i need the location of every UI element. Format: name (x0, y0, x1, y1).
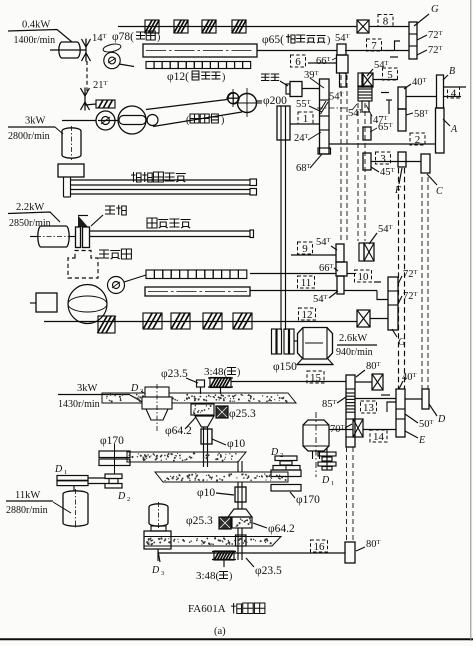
numbox 13 (361, 401, 377, 413)
phi23 shaft upper (197, 380, 205, 387)
svg-text:13: 13 (363, 402, 375, 414)
svg-text:D: D (270, 447, 279, 458)
svg-text:11: 11 (301, 277, 312, 289)
cone upper (195, 416, 214, 427)
worm hatch lower (214, 551, 234, 560)
gearbox phi64 upper (191, 404, 214, 415)
waste box jizaxiang dashed (68, 251, 98, 279)
pulley circle left (104, 52, 120, 68)
gear pulley circle mid (108, 277, 125, 294)
svg-text:φ170: φ170 (100, 435, 124, 447)
motor M5 small (303, 420, 329, 451)
svg-text:2850r/min: 2850r/min (9, 218, 51, 229)
svg-text:1: 1 (331, 480, 334, 487)
svg-text:φ64.2: φ64.2 (268, 523, 295, 535)
gear 58T (398, 109, 406, 131)
shaft lower tail (237, 528, 239, 560)
svg-text:3:48(: 3:48( (196, 570, 220, 582)
gear column B A (437, 75, 444, 108)
svg-text:3:48(: 3:48( (204, 366, 228, 378)
gear C (421, 154, 430, 173)
svg-text:φ78(: φ78( (112, 31, 134, 43)
shaft line F (371, 161, 421, 163)
numbox 7 (367, 39, 382, 51)
gear column G2 72T (388, 277, 398, 330)
svg-text:8: 8 (383, 16, 389, 28)
gear 80T bottom (345, 542, 355, 563)
D3 stem (157, 549, 159, 561)
pulley D2 r2 (275, 456, 297, 461)
wire link (119, 64, 134, 67)
numbox 14 (370, 430, 387, 442)
svg-text:): ) (327, 35, 330, 46)
svg-text:C: C (436, 186, 443, 197)
bevel gear pair 14T (85, 39, 87, 62)
coupling X top (357, 20, 369, 33)
svg-text:3: 3 (161, 570, 164, 577)
svg-text:1400r/min: 1400r/min (14, 35, 56, 46)
fork 13 (387, 402, 396, 412)
gear stack hatch (358, 86, 372, 101)
shaft sleeve phi200 (277, 106, 290, 140)
motor M1 0.4kW (59, 42, 80, 58)
svg-text:B: B (449, 66, 455, 77)
gear column 40-50 E (396, 389, 405, 437)
pulley D1 left (57, 476, 88, 481)
svg-text:φ10: φ10 (197, 487, 215, 499)
svg-text:2800r/min: 2800r/min (8, 131, 50, 142)
motor M7 11kW (63, 491, 88, 526)
grooved drum rollers phi78 (145, 20, 159, 33)
hatched pulley under fan (98, 316, 115, 333)
oil pump label (261, 74, 270, 81)
drum phi200 circle (238, 94, 257, 113)
chain dashed pair right (357, 103, 359, 241)
svg-text:φ170: φ170 (296, 494, 320, 506)
label fuzhu xizuiguan (131, 172, 141, 182)
gear column G1 72T (409, 22, 417, 59)
shaft A line (329, 143, 436, 145)
coupling X 12 (357, 310, 370, 327)
coupling X 70 (353, 419, 363, 437)
svg-text:): ) (221, 115, 224, 126)
numbox 16 (311, 540, 328, 552)
svg-text:0.4kW: 0.4kW (22, 20, 50, 31)
belt conveyor (146, 100, 227, 110)
chain dashed pair left (340, 75, 342, 243)
minus mark (386, 56, 394, 58)
svg-text:D: D (117, 491, 126, 502)
long vertical shaft phi150 (280, 106, 282, 330)
numbox 4 (448, 87, 460, 98)
svg-text:φ25.3: φ25.3 (186, 515, 213, 527)
coupling X 54T r (359, 243, 364, 261)
gear 54T small (337, 44, 346, 55)
svg-text:A: A (450, 124, 458, 135)
svg-text:G: G (431, 4, 439, 15)
bracket stem (63, 177, 65, 197)
svg-text:2880r/min: 2880r/min (6, 505, 48, 516)
coupling X 80 (372, 374, 383, 390)
fan housing circle (68, 285, 107, 324)
svg-text:φ150: φ150 (273, 361, 297, 373)
svg-text:(a): (a) (214, 626, 226, 637)
motor M6 bell (145, 387, 169, 397)
svg-text:φ10: φ10 (227, 438, 245, 450)
svg-text:D: D (321, 475, 330, 486)
svg-text:4: 4 (451, 88, 457, 100)
svg-text:φ25.3: φ25.3 (229, 408, 256, 420)
waste duct paizafengguan (90, 230, 251, 232)
band4 belt (144, 537, 281, 547)
pulley large (118, 106, 146, 134)
svg-text:10: 10 (358, 271, 370, 283)
svg-text:): ) (222, 72, 225, 83)
numbox 6 (291, 55, 306, 67)
wire (369, 26, 409, 28)
svg-text:D: D (437, 414, 446, 425)
clutch hatched box (96, 100, 115, 108)
wire sleeve to column (290, 123, 320, 125)
minus mark 10 (374, 281, 381, 283)
squares row mid (146, 270, 154, 279)
minus 13 (381, 394, 390, 396)
svg-text:D: D (151, 565, 160, 576)
svg-text:φ64.2: φ64.2 (165, 425, 192, 437)
gear small above dashes (362, 101, 369, 112)
idler right (228, 93, 239, 104)
numbox 10 (355, 270, 372, 282)
numbox 5 (383, 68, 398, 80)
svg-text:FA601A: FA601A (188, 603, 226, 615)
svg-text:1: 1 (64, 469, 67, 476)
cone lower (228, 509, 252, 517)
svg-text:14: 14 (373, 431, 385, 443)
svg-text:φ200: φ200 (263, 95, 287, 107)
shaft line 15 (231, 381, 346, 383)
shaft stub lower (237, 461, 239, 472)
svg-text:6: 6 (295, 56, 301, 68)
motor M2 3kW (62, 128, 81, 158)
gear 54T r3 (337, 276, 344, 294)
pulley D1 right (326, 448, 328, 470)
wire xbox to 40T (373, 79, 398, 81)
svg-text:E: E (418, 435, 425, 446)
svg-text:3kW: 3kW (77, 383, 98, 394)
pulley circle phi200 small (228, 93, 239, 104)
pulley phi170 right (271, 470, 301, 477)
long shaft line mid (44, 321, 357, 323)
vertical bar 47 (370, 114, 372, 124)
svg-text:): ) (237, 367, 240, 378)
svg-text:): ) (229, 571, 232, 582)
shaft line groove drum (118, 26, 357, 28)
shaft box lower (235, 487, 246, 502)
svg-text:15: 15 (310, 372, 322, 384)
gear D rect (422, 389, 429, 409)
fan disc (76, 227, 81, 248)
motor M4 2.6kW (298, 328, 333, 360)
roller phi65 body (143, 44, 257, 57)
bracket box (58, 164, 84, 177)
worm hatch upper (210, 378, 231, 388)
svg-text:2: 2 (127, 496, 130, 503)
numbox 15 (307, 371, 324, 383)
clutch fork (395, 41, 401, 51)
svg-text:2: 2 (280, 452, 283, 459)
motor M8 small (149, 504, 168, 526)
shaft line 9 (291, 254, 336, 256)
disc ellipse (102, 43, 121, 54)
gear column main 39-55-24 (320, 79, 330, 154)
svg-text:1430r/min: 1430r/min (58, 399, 100, 410)
svg-text:φ23.5: φ23.5 (161, 368, 188, 380)
yarn guide bar squares (146, 62, 154, 69)
idler small (147, 115, 158, 126)
numbox 1 (298, 112, 313, 124)
gear 45T (363, 153, 371, 170)
svg-text:16: 16 (314, 541, 326, 553)
suction pipe outer (71, 179, 250, 181)
label fengji fan (105, 206, 115, 214)
numbox 2 (410, 133, 425, 145)
numbox 12 (299, 308, 316, 320)
page frame bottom edge (0, 638, 473, 640)
chain dashed pair CD (421, 177, 423, 389)
shaft line 13 (355, 398, 396, 400)
fan housing box (36, 293, 57, 312)
svg-text:12: 12 (302, 309, 313, 321)
coupling X 54T right (358, 73, 363, 87)
svg-text:7: 7 (371, 40, 377, 52)
oil pump body (286, 84, 290, 94)
pulley phi170 left (99, 451, 130, 458)
shaft box band4 (236, 535, 247, 546)
svg-text:1: 1 (303, 113, 309, 125)
shaft line yarn roller (257, 50, 337, 52)
gear F (398, 152, 406, 167)
motor M3 2.2kW (38, 226, 69, 247)
svg-text:φ23.5: φ23.5 (255, 565, 282, 577)
bevel gear pair 21T (84, 88, 86, 111)
svg-text:D: D (54, 464, 63, 475)
axis dashdot col1 (317, 107, 346, 109)
band1 belt (102, 393, 296, 403)
svg-text:11kW: 11kW (15, 490, 40, 501)
shaft line 11 (250, 290, 337, 292)
suction pipe inner (71, 189, 250, 191)
gear 54T r1 (336, 244, 344, 262)
svg-text:2.2kW: 2.2kW (16, 202, 44, 213)
long roller mid (145, 287, 250, 296)
shaft vertical lower (237, 482, 239, 509)
belt D1-D2 link (88, 477, 105, 479)
gear 65T (363, 127, 371, 140)
svg-text:2: 2 (415, 134, 421, 146)
gear 40T top (398, 87, 406, 109)
shaft line 10 (250, 273, 336, 275)
chain dashed pair bottom (346, 447, 348, 542)
svg-text:φ12(: φ12( (167, 71, 189, 83)
shaft vertical upper (203, 427, 205, 467)
shaft box upper (201, 429, 212, 444)
svg-text:): ) (157, 32, 160, 43)
fan flag (78, 216, 88, 228)
shaft line 16 (158, 552, 345, 554)
numbox 9 (298, 242, 313, 254)
band2 belt (127, 452, 246, 462)
gear column 80-85-70 (346, 375, 355, 447)
svg-text:D: D (130, 383, 139, 394)
gear 66T r (336, 262, 347, 276)
gear 66T (337, 55, 349, 73)
chain dashed pair F40 (398, 168, 400, 389)
wire bevel to clutch (85, 104, 96, 105)
label jizaxiang (99, 250, 109, 258)
wire dashed shaft (86, 61, 88, 91)
phi150 pulley (272, 329, 277, 354)
second shaft line (345, 50, 409, 52)
shaft line 12 (370, 318, 388, 320)
fork 11 (377, 291, 388, 300)
clutch T bracket (386, 99, 392, 101)
band3 belt (155, 472, 288, 482)
svg-text:φ65(: φ65( (262, 34, 284, 46)
hatched rollers mid row (143, 313, 162, 329)
band4 end housing (144, 531, 171, 549)
shaft line 14 (329, 429, 353, 431)
coupling X phi25 upper (216, 406, 228, 418)
svg-text:9: 9 (302, 243, 308, 255)
gearbox phi64 lower (232, 517, 252, 528)
svg-text:3: 3 (380, 153, 386, 165)
label paizafengguan (147, 218, 157, 228)
numbox 11 (298, 276, 315, 288)
numbox 8 (378, 15, 393, 27)
coupling X phi25 lower (219, 517, 231, 529)
numbox 3 (376, 152, 391, 164)
pulley small (96, 111, 115, 130)
svg-text:3kW: 3kW (25, 116, 46, 127)
svg-text:940r/min: 940r/min (336, 347, 373, 358)
pulley D2 left (105, 474, 122, 479)
svg-text:2.6kW: 2.6kW (339, 333, 367, 344)
